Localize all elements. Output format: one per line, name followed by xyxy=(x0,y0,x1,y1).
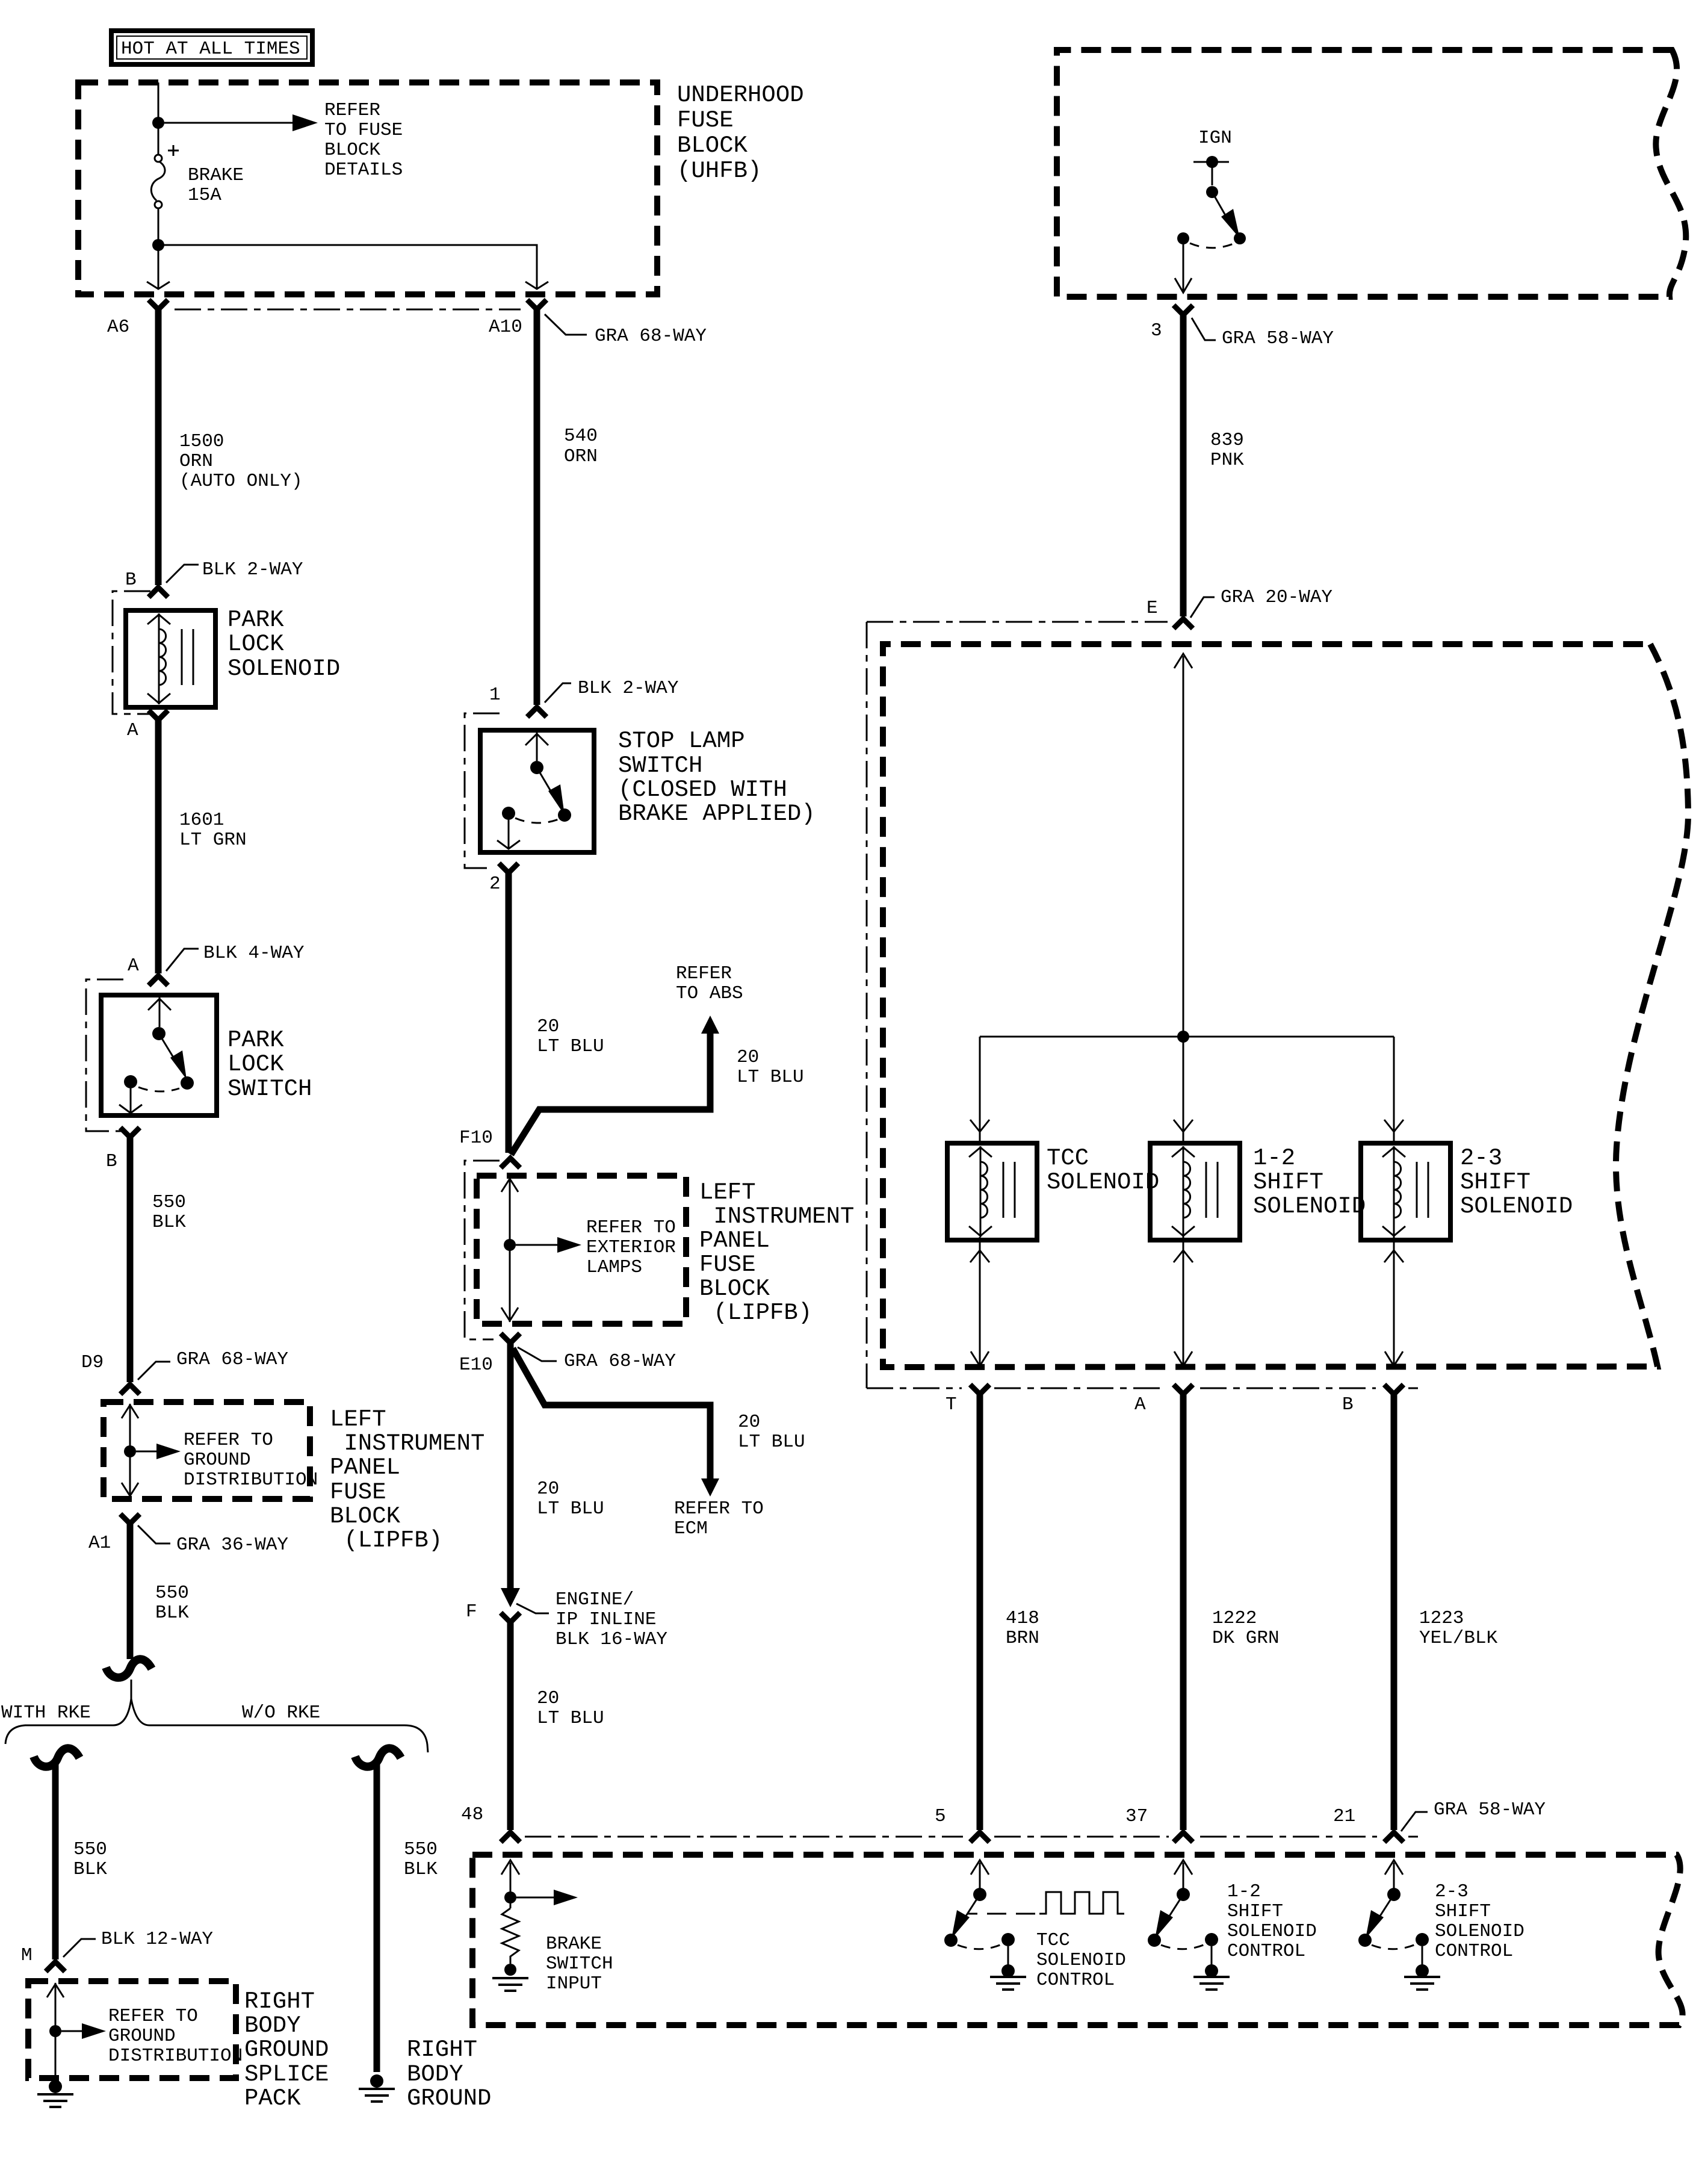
wire across UHFB to A10 xyxy=(158,245,537,288)
wire 540 ORN A10 to stop lamp switch xyxy=(534,309,540,705)
svg-text:1-2: 1-2 xyxy=(1227,1881,1261,1902)
label 550 BLK xyxy=(152,1192,186,1233)
dashed box ignition switch assembly xyxy=(1057,50,1686,297)
svg-text:DISTRIBUTION: DISTRIBUTION xyxy=(108,2046,243,2067)
label ENGINE/ IP INLINE BLK 16-WAY xyxy=(556,1589,667,1650)
svg-text:540: 540 xyxy=(564,426,598,447)
svg-text:LT BLU: LT BLU xyxy=(537,1498,604,1519)
solenoid 1-2 SHIFT xyxy=(1150,1143,1240,1240)
connector 1-2 solenoid top xyxy=(1174,1120,1193,1132)
wire TCC solenoid feed xyxy=(979,1037,981,1142)
svg-text:YEL/BLK: YEL/BLK xyxy=(1419,1628,1498,1649)
leader GRA 68-WAY E10 xyxy=(518,1347,557,1361)
svg-text:DETAILS: DETAILS xyxy=(324,160,403,181)
svg-text:BLK 4-WAY: BLK 4-WAY xyxy=(203,943,305,964)
label 20 LT BLU xyxy=(537,1688,604,1729)
svg-text:839: 839 xyxy=(1210,430,1244,451)
label 1500 ORN (AUTO ONLY) xyxy=(179,431,303,492)
svg-text:20: 20 xyxy=(537,1688,559,1709)
switch internals park lock switch xyxy=(119,997,194,1113)
solenoid 2-3 SHIFT xyxy=(1361,1143,1450,1240)
svg-text:1: 1 xyxy=(489,684,501,706)
svg-text:GRA 68-WAY: GRA 68-WAY xyxy=(176,1349,288,1370)
svg-text:PARK: PARK xyxy=(227,1027,284,1053)
wire 418 BRN xyxy=(977,1394,983,1830)
dash-dot ECM connector boundary xyxy=(525,1836,1418,1838)
dash-dot bracket park lock switch xyxy=(86,979,123,1131)
svg-text:20: 20 xyxy=(737,1047,759,1068)
svg-text:IGN: IGN xyxy=(1198,128,1232,149)
svg-text:F: F xyxy=(466,1601,477,1622)
brake switch input circuit xyxy=(501,1860,578,1908)
svg-text:W/O RKE: W/O RKE xyxy=(242,1702,320,1723)
label 550 BLK xyxy=(73,1839,107,1880)
svg-text:2-3: 2-3 xyxy=(1460,1145,1502,1171)
svg-text:ORN: ORN xyxy=(564,446,598,467)
svg-text:BLK 2-WAY: BLK 2-WAY xyxy=(202,559,303,580)
connector pin B park lock switch xyxy=(120,1128,140,1137)
dashed box refer to ground distribution right body xyxy=(28,1981,236,2078)
label REFER TO FUSE BLOCK DETAILS xyxy=(324,100,403,181)
ground right body splice pack xyxy=(37,2080,73,2107)
svg-text:BLK 2-WAY: BLK 2-WAY xyxy=(578,678,679,699)
connector pin 3 ignition xyxy=(1174,305,1193,315)
svg-text:418: 418 xyxy=(1006,1608,1039,1629)
svg-text:LT GRN: LT GRN xyxy=(179,830,247,851)
connector E10 xyxy=(501,1333,520,1343)
ground 1-2 shift solenoid control xyxy=(1193,1977,1230,1990)
label RIGHT BODY GROUND xyxy=(407,2037,491,2112)
leader BLK 2-WAY xyxy=(166,565,199,583)
label 20 LT BLU ecm branch xyxy=(738,1412,805,1453)
svg-text:FUSE: FUSE xyxy=(677,107,734,134)
label REFER TO ABS xyxy=(676,963,743,1004)
connector below TCC solenoid xyxy=(970,1250,989,1262)
svg-text:B: B xyxy=(1342,1394,1354,1415)
svg-text:2-3: 2-3 xyxy=(1435,1881,1469,1902)
label BRAKE SWITCH INPUT xyxy=(546,1934,613,1994)
svg-text:BLK 16-WAY: BLK 16-WAY xyxy=(556,1629,667,1650)
svg-text:550: 550 xyxy=(155,1583,189,1604)
wire 550 BLK to splice xyxy=(127,1524,134,1659)
connector pin A park lock solenoid xyxy=(149,710,168,720)
svg-text:SHIFT: SHIFT xyxy=(1435,1901,1491,1922)
label 1223 YEL/BLK xyxy=(1419,1608,1498,1649)
svg-text:1601: 1601 xyxy=(179,810,224,831)
svg-text:FUSE: FUSE xyxy=(330,1479,386,1506)
wire E to junction node xyxy=(1183,656,1184,1037)
svg-text:WITH RKE: WITH RKE xyxy=(1,1702,91,1723)
svg-text:GROUND: GROUND xyxy=(184,1450,251,1471)
connector pin 2 stop lamp switch xyxy=(499,863,518,873)
node brake ground dot xyxy=(504,1964,516,1976)
svg-text:LOCK: LOCK xyxy=(227,1051,284,1078)
label TCC SOLENOID xyxy=(1047,1145,1159,1196)
wire 20 LT BLU pin2 to F10 xyxy=(506,873,512,1153)
svg-text:PARK: PARK xyxy=(227,607,284,633)
leader GRA 20-WAY xyxy=(1190,597,1215,618)
svg-text:A1: A1 xyxy=(88,1533,111,1554)
label RIGHT BODY GROUND SPLICE PACK xyxy=(244,1988,329,2112)
arrow down to A10 xyxy=(525,282,548,289)
switch 1-2 shift solenoid control xyxy=(1148,1860,1218,1978)
svg-text:(UHFB): (UHFB) xyxy=(677,158,761,184)
connector TCC solenoid top xyxy=(970,1120,989,1132)
svg-text:PANEL: PANEL xyxy=(330,1454,400,1481)
svg-text:ENGINE/: ENGINE/ xyxy=(556,1589,634,1610)
label 839 PNK xyxy=(1210,430,1244,471)
svg-text:LEFT: LEFT xyxy=(699,1179,756,1206)
svg-text:STOP LAMP: STOP LAMP xyxy=(618,728,745,754)
connector pin 48 xyxy=(501,1832,520,1842)
label 550 BLK xyxy=(155,1583,189,1624)
label REFER TO ECM xyxy=(674,1498,764,1539)
label 2-3 SHIFT SOLENOID CONTROL xyxy=(1435,1881,1524,1962)
dashed box refer to ground distribution LIPFB xyxy=(104,1402,310,1499)
svg-text:LT BLU: LT BLU xyxy=(537,1036,604,1057)
svg-text:BRAKE: BRAKE xyxy=(546,1934,602,1955)
svg-text:GROUND: GROUND xyxy=(407,2085,491,2112)
label REFER TO EXTERIOR LAMPS xyxy=(586,1217,676,1278)
leader GRA 68-WAY xyxy=(545,314,587,335)
label 418 BRN xyxy=(1006,1608,1039,1649)
ground TCC solenoid control xyxy=(990,1977,1026,1990)
svg-text:A6: A6 xyxy=(107,317,129,338)
dashed box LEFT INSTRUMENT PANEL FUSE BLOCK xyxy=(477,1176,686,1324)
switch internals stop lamp switch xyxy=(497,733,571,849)
svg-text:PANEL: PANEL xyxy=(699,1227,770,1254)
leader GRA 58-WAY ecm xyxy=(1401,1812,1428,1831)
svg-text:DK GRN: DK GRN xyxy=(1212,1628,1280,1649)
svg-text:M: M xyxy=(21,1945,32,1966)
brace WITH RKE / W/O RKE xyxy=(5,1680,428,1752)
svg-text:B: B xyxy=(106,1151,117,1172)
svg-text:SWITCH: SWITCH xyxy=(546,1953,613,1975)
svg-text:48: 48 xyxy=(461,1804,483,1825)
svg-text:LAMPS: LAMPS xyxy=(586,1257,642,1278)
svg-text:BLK: BLK xyxy=(73,1859,107,1880)
leader ENGINE/IP INLINE xyxy=(516,1604,549,1613)
wire solenoid feed bus xyxy=(980,1036,1394,1038)
svg-text:1-2: 1-2 xyxy=(1253,1145,1295,1171)
wire TCC solenoid return xyxy=(979,1237,981,1364)
wire 1-2 solenoid feed xyxy=(1183,1037,1184,1142)
wire fuse to junction xyxy=(158,208,159,288)
svg-text:20: 20 xyxy=(738,1412,760,1433)
connector T xyxy=(970,1385,989,1394)
svg-text:LOCK: LOCK xyxy=(227,631,284,657)
label 2-3 SHIFT SOLENOID xyxy=(1460,1145,1573,1220)
label REFER TO GROUND DISTRIBUTION 2 xyxy=(108,2006,243,2067)
svg-text:IP INLINE: IP INLINE xyxy=(556,1609,656,1630)
label BRAKE 15A xyxy=(188,165,244,206)
ground 2-3 shift solenoid control xyxy=(1404,1977,1440,1990)
svg-text:SHIFT: SHIFT xyxy=(1460,1169,1531,1196)
wire arrow REFER TO FUSE BLOCK DETAILS xyxy=(164,114,318,131)
svg-text:550: 550 xyxy=(73,1839,107,1860)
svg-text:SOLENOID: SOLENOID xyxy=(1036,1950,1126,1971)
label PARK LOCK SOLENOID xyxy=(227,607,340,682)
label PARK LOCK SWITCH xyxy=(227,1027,312,1102)
svg-text:REFER TO: REFER TO xyxy=(184,1430,273,1451)
arrow to ECM xyxy=(701,1478,719,1497)
wire branch to ECM xyxy=(513,1348,710,1480)
wire 20 LT BLU F to ECM pin 48 xyxy=(507,1622,514,1830)
svg-text:REFER: REFER xyxy=(324,100,380,121)
svg-text:SOLENOID: SOLENOID xyxy=(227,656,340,682)
leader BLK 2-WAY xyxy=(545,683,571,703)
svg-text:GROUND: GROUND xyxy=(244,2037,329,2063)
internal arrows LIPFB refer to exterior lamps xyxy=(501,1177,581,1322)
svg-text:SOLENOID: SOLENOID xyxy=(1460,1193,1573,1220)
svg-text:SOLENOID: SOLENOID xyxy=(1047,1169,1159,1196)
svg-text:BLOCK: BLOCK xyxy=(699,1276,770,1302)
svg-text:INSTRUMENT: INSTRUMENT xyxy=(699,1203,854,1230)
node solenoid feed junction xyxy=(1177,1031,1189,1043)
wire 550 BLK with RKE xyxy=(52,1764,59,1959)
svg-text:F10: F10 xyxy=(459,1128,493,1149)
svg-text:BRAKE: BRAKE xyxy=(188,165,244,186)
svg-text:550: 550 xyxy=(152,1192,186,1213)
wire 2-3 solenoid feed xyxy=(1393,1037,1395,1142)
dash-dot connector boundary under UHFB xyxy=(175,309,521,311)
svg-text:E: E xyxy=(1147,598,1158,619)
wire 839 PNK xyxy=(1180,315,1187,616)
svg-text:(CLOSED WITH: (CLOSED WITH xyxy=(618,777,787,803)
svg-text:INPUT: INPUT xyxy=(546,1973,602,1994)
svg-text:GRA 68-WAY: GRA 68-WAY xyxy=(564,1351,676,1372)
svg-text:SWITCH: SWITCH xyxy=(227,1076,312,1102)
wire 1-2 solenoid return xyxy=(1183,1237,1184,1364)
svg-text:A: A xyxy=(1134,1394,1146,1415)
leader GRA 58-WAY top xyxy=(1192,318,1216,340)
svg-text:5: 5 xyxy=(935,1806,946,1827)
internal arrows ground distribution xyxy=(122,1404,181,1497)
splice hook xyxy=(106,1659,152,1678)
svg-text:(LIPFB): (LIPFB) xyxy=(330,1527,442,1554)
svg-text:BLOCK: BLOCK xyxy=(330,1503,401,1530)
svg-text:GRA 20-WAY: GRA 20-WAY xyxy=(1221,587,1332,608)
svg-text:REFER: REFER xyxy=(676,963,732,984)
ground right body ground xyxy=(359,2074,395,2102)
svg-text:REFER TO: REFER TO xyxy=(108,2006,198,2027)
svg-text:3: 3 xyxy=(1151,320,1162,341)
arrow down 1-2 return xyxy=(1174,1351,1192,1366)
svg-text:20: 20 xyxy=(537,1478,559,1500)
svg-text:(LIPFB): (LIPFB) xyxy=(699,1300,812,1326)
connector F10 xyxy=(501,1158,520,1168)
dash-dot bracket LIPFB xyxy=(465,1161,500,1339)
connector 2-3 solenoid top xyxy=(1384,1120,1404,1132)
svg-text:HOT AT ALL TIMES: HOT AT ALL TIMES xyxy=(121,39,300,60)
splice hook right branch xyxy=(355,1748,401,1767)
dash-dot bracket stop lamp switch xyxy=(465,713,500,868)
label 1-2 SHIFT SOLENOID xyxy=(1253,1145,1366,1220)
wire 550 BLK to D9 xyxy=(127,1137,134,1382)
label REFER TO GROUND DISTRIBUTION xyxy=(184,1430,318,1491)
svg-text:20: 20 xyxy=(537,1016,559,1037)
wire 2-3 solenoid return xyxy=(1393,1237,1395,1364)
fuse BRAKE 15A xyxy=(151,145,179,208)
connector pin 21 xyxy=(1384,1832,1404,1842)
svg-text:21: 21 xyxy=(1333,1806,1355,1827)
resistor brake switch input xyxy=(502,1908,519,1964)
wire branch to ABS xyxy=(511,1031,710,1155)
svg-text:RIGHT: RIGHT xyxy=(244,1988,315,2015)
label TCC SOLENOID CONTROL xyxy=(1036,1930,1126,1991)
svg-text:UNDERHOOD: UNDERHOOD xyxy=(677,82,804,108)
svg-text:1500: 1500 xyxy=(179,431,224,452)
label LEFT INSTRUMENT PANEL FUSE BLOCK (LIPFB) mid xyxy=(699,1179,854,1326)
wire 1223 YEL/BLK xyxy=(1391,1394,1397,1830)
svg-text:1222: 1222 xyxy=(1212,1608,1257,1629)
connector A1 xyxy=(120,1514,140,1524)
dashed box transmission internal xyxy=(883,644,1688,1367)
svg-text:TO FUSE: TO FUSE xyxy=(324,120,403,141)
wire 20 LT BLU E10 to F xyxy=(507,1343,514,1589)
svg-text:LT BLU: LT BLU xyxy=(537,1708,604,1729)
arrow up at E inside transmission xyxy=(1174,654,1192,668)
svg-text:LEFT: LEFT xyxy=(330,1406,386,1433)
label 550 BLK xyxy=(404,1839,438,1880)
svg-text:BLK: BLK xyxy=(152,1212,186,1233)
leader GRA 68-WAY D9 xyxy=(138,1362,170,1380)
connector below 1-2 solenoid xyxy=(1174,1250,1193,1262)
svg-text:ORN: ORN xyxy=(179,451,213,472)
svg-text:37: 37 xyxy=(1125,1806,1148,1827)
wire 1601 LT GRN xyxy=(155,720,162,973)
svg-text:B: B xyxy=(125,569,137,591)
label UNDERHOOD FUSE BLOCK (UHFB) xyxy=(677,82,804,184)
dash-dot bracket park lock solenoid xyxy=(113,591,150,714)
svg-text:GRA 68-WAY: GRA 68-WAY xyxy=(595,326,707,347)
svg-text:15A: 15A xyxy=(188,185,221,206)
connector A6 pin xyxy=(149,300,168,309)
wire inside UHFB from box top to fuse xyxy=(158,82,159,155)
connector A10 pin xyxy=(527,300,546,309)
svg-text:DISTRIBUTION: DISTRIBUTION xyxy=(184,1469,318,1491)
svg-text:REFER TO: REFER TO xyxy=(674,1498,764,1519)
leader BLK 4-WAY xyxy=(166,949,199,971)
connector A xyxy=(1174,1385,1193,1394)
label 20 LT BLU xyxy=(537,1016,604,1057)
arrow down TCC return xyxy=(971,1351,989,1366)
svg-text:SWITCH: SWITCH xyxy=(618,752,702,779)
connector M xyxy=(46,1962,65,1971)
connector pin A park lock switch xyxy=(149,976,168,985)
svg-text:GROUND: GROUND xyxy=(108,2026,176,2047)
svg-text:SOLENOID: SOLENOID xyxy=(1227,1921,1317,1942)
connector B xyxy=(1384,1385,1404,1394)
box HOT AT ALL TIMES xyxy=(111,31,312,64)
leader GRA 36-WAY xyxy=(138,1525,170,1543)
svg-text:SPLICE: SPLICE xyxy=(244,2061,329,2088)
svg-text:GRA 36-WAY: GRA 36-WAY xyxy=(176,1534,288,1556)
svg-text:CONTROL: CONTROL xyxy=(1036,1970,1115,1991)
svg-text:FUSE: FUSE xyxy=(699,1252,756,1278)
label 1-2 SHIFT SOLENOID CONTROL xyxy=(1227,1881,1317,1962)
svg-text:E10: E10 xyxy=(459,1354,493,1376)
svg-text:INSTRUMENT: INSTRUMENT xyxy=(330,1430,484,1457)
svg-text:BRAKE APPLIED): BRAKE APPLIED) xyxy=(618,801,816,827)
svg-text:(AUTO ONLY): (AUTO ONLY) xyxy=(179,471,303,492)
label 20 LT BLU xyxy=(537,1478,604,1519)
svg-text:EXTERIOR: EXTERIOR xyxy=(586,1237,676,1258)
connector E transmission xyxy=(1174,619,1193,628)
connector pin B park lock solenoid xyxy=(149,588,168,597)
node junction dot at fuse top xyxy=(152,117,164,129)
label 1601 LT GRN xyxy=(179,810,247,851)
wire 1222 DK GRN xyxy=(1180,1394,1187,1830)
svg-text:A: A xyxy=(127,720,138,741)
svg-text:BODY: BODY xyxy=(407,2061,463,2088)
arrow down 2-3 return xyxy=(1385,1351,1403,1366)
connector below 2-3 solenoid xyxy=(1384,1250,1404,1262)
svg-text:ECM: ECM xyxy=(674,1518,708,1539)
svg-text:CONTROL: CONTROL xyxy=(1435,1941,1513,1962)
svg-text:BODY: BODY xyxy=(244,2012,301,2039)
svg-text:CONTROL: CONTROL xyxy=(1227,1941,1305,1962)
svg-text:BLK: BLK xyxy=(404,1859,438,1880)
svg-text:LT BLU: LT BLU xyxy=(737,1067,804,1088)
svg-text:A10: A10 xyxy=(489,317,522,338)
internal arrows ground distribution 2 xyxy=(47,1983,106,2086)
svg-text:T: T xyxy=(946,1394,957,1415)
svg-text:2: 2 xyxy=(489,873,501,895)
label STOP LAMP SWITCH (CLOSED WITH BRAKE APPLIED) xyxy=(618,728,816,827)
svg-text:REFER TO: REFER TO xyxy=(586,1217,676,1238)
connector D9 xyxy=(120,1385,140,1394)
label 20 LT BLU abs branch xyxy=(737,1047,804,1088)
solenoid TCC xyxy=(947,1143,1037,1240)
svg-text:LT BLU: LT BLU xyxy=(738,1432,805,1453)
svg-text:BLOCK: BLOCK xyxy=(677,132,748,159)
solenoid PARK LOCK SOLENOID xyxy=(126,610,215,707)
svg-text:BLK: BLK xyxy=(155,1602,189,1624)
inline connector F ENGINE/IP xyxy=(501,1588,520,1622)
signal square wave TCC xyxy=(968,1892,1124,1914)
label LEFT INSTRUMENT PANEL FUSE BLOCK (LIPFB) left xyxy=(330,1406,484,1554)
leader BLK 12-WAY xyxy=(63,1939,96,1957)
svg-text:550: 550 xyxy=(404,1839,438,1860)
svg-text:SOLENOID: SOLENOID xyxy=(1253,1193,1366,1220)
dashed box ECM xyxy=(472,1855,1683,2025)
svg-text:GRA 58-WAY: GRA 58-WAY xyxy=(1222,328,1334,349)
svg-text:TO ABS: TO ABS xyxy=(676,983,743,1004)
wire 550 BLK w/o RKE xyxy=(374,1764,380,2072)
ground brake switch input xyxy=(492,1978,528,1991)
switch ignition IGN xyxy=(1175,156,1246,293)
svg-text:SHIFT: SHIFT xyxy=(1227,1901,1283,1922)
svg-text:SOLENOID: SOLENOID xyxy=(1435,1921,1524,1942)
svg-text:BRN: BRN xyxy=(1006,1628,1039,1649)
wire 1500 ORN A6 to park lock solenoid xyxy=(155,309,162,585)
arrow to ABS xyxy=(701,1016,719,1034)
node junction dot below fuse xyxy=(152,239,164,251)
svg-text:D9: D9 xyxy=(81,1352,104,1373)
svg-text:PACK: PACK xyxy=(244,2085,301,2112)
svg-text:TCC: TCC xyxy=(1036,1930,1070,1951)
arrow down to A6 xyxy=(147,282,170,289)
svg-text:RIGHT: RIGHT xyxy=(407,2037,477,2063)
switch STOP LAMP SWITCH box xyxy=(480,730,594,852)
svg-text:BLK 12-WAY: BLK 12-WAY xyxy=(101,1929,213,1950)
label 1222 DK GRN xyxy=(1212,1608,1280,1649)
svg-text:BLOCK: BLOCK xyxy=(324,140,380,161)
svg-text:PNK: PNK xyxy=(1210,450,1244,471)
switch TCC solenoid control xyxy=(944,1860,1015,1978)
connector pin 1 stop lamp switch xyxy=(527,707,546,717)
